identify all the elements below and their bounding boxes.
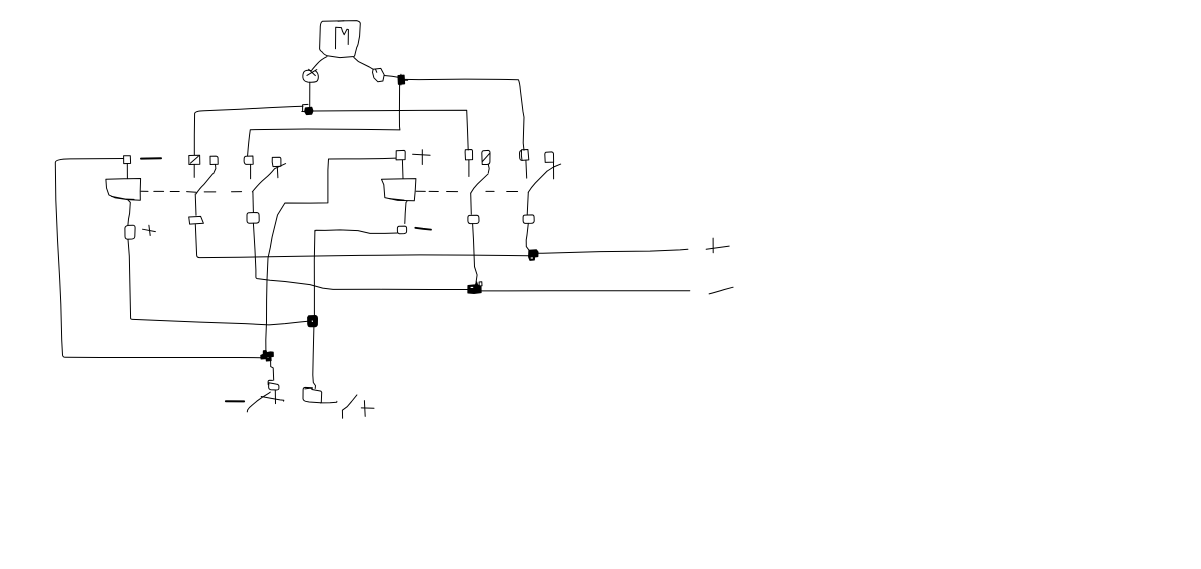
wire S4 arm to lower terminal	[527, 192, 528, 215]
node C junction	[261, 351, 273, 361]
switch S4 arm	[528, 171, 547, 192]
node A junction	[302, 104, 313, 114]
wire S2 bottom wavy to node E and right end	[253, 223, 689, 291]
terminal BT1 (bottom-left lug)	[268, 380, 279, 390]
switch S3 arm	[471, 174, 489, 193]
node D junction	[308, 316, 318, 327]
wire node B down and left to switch S2 top-left	[248, 85, 400, 156]
wire node C down to terminal BT1	[271, 361, 274, 380]
wire node A to switch S1 top-left	[194, 106, 303, 155]
wire K1.1 down to coil	[126, 164, 128, 179]
terminal K1.2 (plus pouch)	[125, 225, 135, 239]
label stroke across BT1 lead	[261, 397, 284, 402]
switch S1 lower terminal	[189, 216, 204, 224]
switch S4 terminal b (top-right)	[545, 152, 554, 163]
terminal X1 (motor minus lug)	[303, 69, 318, 82]
wire K2.2 branch down through node D to terminal BT2	[313, 230, 316, 388]
wire S3 arm to lower terminal	[470, 193, 473, 214]
switch S1 terminal b (top-right)	[210, 156, 218, 174]
terminal K2.1 (coil K2 top)	[396, 150, 405, 160]
switch S1 arm	[196, 174, 213, 194]
label plus (BT2)	[361, 401, 374, 417]
wire BT2 right stub	[320, 401, 337, 403]
wire node B to switch S4 top-left	[404, 79, 524, 150]
switch S3 terminal b (top-right)	[482, 150, 490, 172]
switch S2 terminal b (top-right)	[272, 157, 281, 166]
wire K2.2 left to node D drop	[315, 230, 398, 234]
label minus (BT1)	[226, 400, 244, 402]
motor M1 body	[320, 21, 361, 58]
wire S3 bottom into node E	[473, 224, 478, 282]
wire coil K1 to terminal K1.2	[128, 200, 131, 226]
switch S3 terminal a (top-left)	[465, 150, 473, 160]
relay coil K2	[382, 179, 416, 201]
label slash arc (BT1)	[247, 392, 270, 412]
terminal BT2 (bottom-right lug)	[303, 387, 322, 402]
switch S3 fixed contact stem	[468, 160, 470, 177]
wire motor left lead	[312, 57, 328, 71]
wire S2 arm to lower terminal	[252, 192, 255, 213]
dashed link K2	[416, 190, 517, 192]
wire X2 to node B	[384, 76, 398, 78]
wire node F to right end	[538, 249, 688, 253]
switch S4 fixed contact stem	[525, 161, 528, 179]
terminal K1.1 (coil K1 top)	[124, 156, 131, 164]
switch S1 fixed contact stem	[193, 165, 195, 178]
label slash (BT2)	[342, 395, 357, 418]
wire K1.1 to left rail down to node C	[55, 159, 261, 358]
node B junction	[398, 74, 408, 85]
node F junction	[529, 250, 538, 260]
label minus (K2 bottom)	[415, 228, 431, 230]
wire motor right lead	[354, 57, 373, 69]
switch S3 lower terminal	[468, 215, 479, 223]
wire S4 bottom into node F	[526, 223, 529, 250]
wire K1.2 down and right to node D	[128, 239, 308, 325]
wire S1 arm to lower terminal	[194, 194, 197, 215]
switch S4 lower terminal	[523, 215, 534, 224]
label plus (K2 top)	[413, 150, 431, 165]
terminal K2.2 (coil K2 bottom)	[397, 226, 406, 234]
wire node A to switch S3 top-left	[313, 110, 469, 150]
switch S1 terminal a (top-left)	[189, 155, 200, 164]
switch S2 arm	[252, 164, 285, 192]
switch S2 lower terminal	[247, 213, 259, 224]
motor M1 letter M	[336, 27, 349, 49]
wire coil K2 to terminal K2.2	[405, 201, 407, 223]
switch S2 contact tick	[276, 167, 279, 178]
switch S4 terminal a (top-left)	[520, 150, 529, 161]
terminal X2 (motor plus lug)	[373, 68, 385, 81]
wire K2.1 left staircase down to node C	[266, 158, 396, 351]
wire X1 down to node A	[309, 82, 311, 108]
node E junction	[468, 282, 482, 294]
label minus (K1 top)	[141, 157, 161, 159]
wire below S4 terminal b	[553, 162, 555, 179]
relay coil K1	[106, 179, 141, 201]
switch S4 contact tick	[547, 164, 560, 171]
wire K2.1 down to coil	[401, 160, 404, 178]
label plus (right end upper)	[706, 238, 729, 253]
switch S2 fixed contact stem	[250, 164, 252, 178]
dashed link K1	[141, 191, 242, 192]
wire S1 bottom long horizontal to node F	[195, 225, 528, 258]
label minus (right end lower)	[709, 287, 733, 294]
wire BT1 bottom stub	[274, 390, 276, 403]
switch S2 terminal a (top-left)	[244, 156, 253, 164]
label plus (K1 bottom)	[143, 225, 156, 235]
